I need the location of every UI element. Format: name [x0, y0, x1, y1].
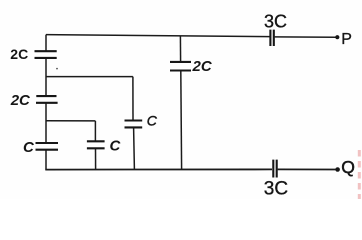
capacitor 2C (left rail, top) plates — [35, 51, 57, 58]
capacitor 2C (left rail, middle) plates — [36, 96, 58, 103]
wire top bus (left of 3C) — [46, 35, 270, 37]
wire left rail between 2C and C — [45, 103, 47, 143]
terminal dot Q — [335, 167, 340, 172]
capacitor C (branch 1) plates — [125, 121, 143, 128]
svg-text:P: P — [341, 31, 352, 48]
capacitor 3C (top, to P) plates — [270, 30, 273, 46]
svg-text:C: C — [147, 113, 158, 129]
svg-text:2C: 2C — [192, 58, 213, 75]
capacitor C (branch 2) plates — [87, 141, 105, 148]
wire branch 2 vertical upper — [94, 121, 96, 141]
wire branch 1 vertical lower — [133, 128, 136, 170]
capacitor C (left rail, bottom) plates — [36, 143, 59, 150]
capacitor 3C (bottom, to Q) plates — [273, 160, 276, 178]
svg-text:Q: Q — [341, 157, 355, 177]
wire left rail between 2C and 2C — [45, 58, 47, 96]
wire left rail top segment — [45, 35, 47, 51]
capacitor 2C (middle rail) plates — [170, 62, 191, 71]
wire middle rail lower (x=180) — [180, 71, 183, 170]
wire branch 2 horizontal — [46, 120, 95, 122]
svg-text:C: C — [23, 139, 35, 156]
wire middle rail upper (x=180) — [179, 36, 181, 62]
wire branch 1 horizontal — [46, 76, 133, 78]
wire left rail bottom segment — [45, 150, 47, 170]
stray speck — [56, 68, 58, 70]
wire bottom bus (left of 3C) — [45, 168, 272, 170]
svg-text:3C: 3C — [264, 12, 287, 32]
wire branch 1 vertical upper — [132, 77, 134, 121]
wire branch 2 vertical lower — [95, 148, 97, 169]
wire top (3C to P) — [275, 36, 337, 38]
svg-text:3C: 3C — [264, 178, 288, 199]
svg-text:2C: 2C — [10, 46, 28, 62]
terminal dot P — [335, 35, 339, 39]
svg-text:2C: 2C — [10, 92, 31, 109]
wire bottom (3C to Q) — [278, 168, 337, 170]
scan artifact pink dashes — [358, 150, 361, 199]
svg-text:C: C — [110, 137, 122, 154]
